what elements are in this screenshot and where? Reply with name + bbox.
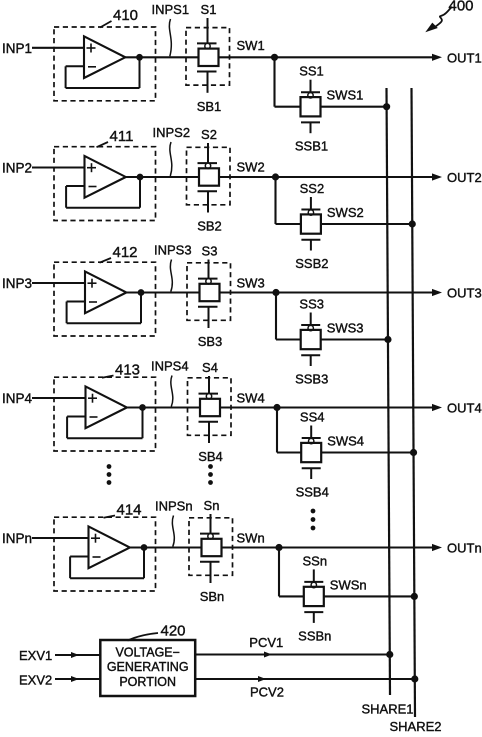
- transmission gate switch SWSn: [304, 582, 324, 623]
- svg-text:SS4: SS4: [300, 410, 325, 425]
- wire feedback loop of U4: [67, 408, 142, 439]
- svg-text:OUT2: OUT2: [447, 170, 482, 185]
- svg-text:PORTION: PORTION: [119, 675, 176, 689]
- node SW2 junction: [272, 174, 278, 180]
- voltage-generating portion block U420: [100, 640, 195, 696]
- wire feedback loop of U1: [66, 57, 140, 88]
- svg-text:SSB4: SSB4: [296, 485, 329, 500]
- leader line INPS1 to wire: [169, 19, 171, 56]
- op-amp Un: [89, 527, 130, 569]
- switch INPS1 dashed outline: [186, 28, 230, 86]
- node EXV2 (input terminal label): [19, 673, 52, 688]
- svg-text:PCV1: PCV1: [249, 635, 283, 650]
- node SWS3-SHARE1 junction: [385, 336, 391, 342]
- switch INPS3 dashed outline: [187, 263, 231, 321]
- node SWS1-SHARE1 junction: [384, 104, 390, 110]
- wire INPn to op-amp + input: [32, 537, 89, 539]
- svg-text:INPn: INPn: [2, 531, 32, 546]
- label INPS3: [154, 243, 192, 258]
- node OUT1 (output terminal label): [447, 50, 482, 65]
- svg-text:SWS4: SWS4: [327, 434, 364, 449]
- label 412 (buffer block reference): [100, 244, 138, 263]
- wire SWn node to OUTn: [222, 546, 434, 548]
- label SSBn (share switch control): [298, 628, 331, 643]
- node OUT2 (output terminal label): [447, 170, 482, 185]
- label INPS2: [153, 125, 191, 140]
- svg-text:INP3: INP3: [2, 276, 32, 291]
- wire branch SW4 down to SWS4: [277, 408, 301, 453]
- node op-amp U1 output junction: [137, 54, 143, 60]
- buffer block 413 dashed outline: [54, 377, 156, 451]
- svg-text:Sn: Sn: [204, 498, 220, 513]
- wire OUTn arrowhead: [432, 544, 442, 551]
- label SSB1 (share switch control): [295, 139, 328, 154]
- transmission gate switch S4: [199, 394, 221, 443]
- node INP1 (input terminal label): [2, 41, 32, 56]
- svg-text:SHARE2: SHARE2: [390, 719, 442, 734]
- svg-text:OUTn: OUTn: [447, 541, 482, 556]
- label PCV1 (net name): [249, 635, 283, 650]
- label Sn (switch control): [204, 498, 220, 513]
- wire branch SW2 down to SWS2: [276, 177, 301, 224]
- svg-text:S1: S1: [201, 2, 217, 17]
- op-amp U4: [86, 387, 127, 429]
- label 400 (figure reference): [449, 0, 474, 15]
- wire SS1 gate: [310, 80, 312, 93]
- label INPS4: [151, 359, 189, 374]
- wire S3 gate: [208, 260, 210, 279]
- label INPSn: [155, 499, 193, 514]
- svg-text:SW3: SW3: [237, 276, 265, 291]
- node INP3 (input terminal label): [2, 276, 32, 291]
- svg-text:411: 411: [110, 128, 134, 145]
- label S2 (switch control): [201, 127, 217, 142]
- squiggle leader arrow to 400: [425, 7, 452, 33]
- node op-amp U4 output junction: [140, 405, 146, 411]
- wire SS2 gate: [310, 197, 312, 210]
- svg-text:SW4: SW4: [237, 391, 265, 406]
- node SWSn-SHARE2 junction: [411, 593, 417, 599]
- label SS1 (share switch control): [299, 64, 324, 79]
- svg-text:INP2: INP2: [2, 161, 32, 176]
- wire U3 output to switch S3: [126, 291, 199, 293]
- wire OUT3 arrowhead: [432, 289, 442, 296]
- label INPS1: [152, 2, 190, 17]
- svg-text:SSn: SSn: [303, 553, 328, 568]
- transmission gate switch Sn: [200, 534, 222, 583]
- wire U2 output to switch S2: [126, 176, 199, 178]
- transmission gate switch SWS3: [301, 325, 321, 366]
- wire SW4 node to OUT4: [220, 406, 433, 408]
- label SB4 (switch control): [198, 449, 223, 464]
- node OUT3 (output terminal label): [447, 286, 482, 301]
- wire S1 gate: [207, 18, 209, 43]
- wire PCV1 to SHARE1: [195, 652, 390, 658]
- label 420 (block reference): [128, 623, 186, 641]
- wire SW3 node to OUT3: [220, 291, 434, 293]
- switch INPSn dashed outline: [189, 518, 233, 576]
- svg-text:SWn: SWn: [237, 531, 265, 546]
- node SW1 junction: [271, 54, 277, 60]
- node SWS2-SHARE2 junction: [409, 221, 415, 227]
- switch INPS4 dashed outline: [188, 378, 232, 436]
- op-amp U3: [85, 272, 126, 314]
- svg-text:INPS1: INPS1: [152, 2, 190, 17]
- leader line INPS4 to wire: [171, 376, 173, 407]
- svg-text:OUT1: OUT1: [447, 50, 482, 65]
- svg-text:SB1: SB1: [197, 99, 222, 114]
- label SWn (node name): [237, 531, 265, 546]
- wire OUT1 arrowhead: [432, 54, 442, 61]
- label 414 (buffer block reference): [104, 502, 142, 519]
- svg-text:SWS3: SWS3: [327, 321, 364, 336]
- svg-text:SSB3: SSB3: [295, 372, 328, 387]
- label SHARE2 (net name): [390, 719, 442, 734]
- wire SWS4 to SHARE2: [321, 451, 413, 453]
- svg-text:SSB2: SSB2: [295, 256, 328, 271]
- wire INP2 to op-amp + input: [32, 166, 85, 168]
- ellipsis dots (share switch column): [311, 509, 315, 530]
- wire Sn gate: [210, 514, 212, 534]
- label SS2 (share switch control): [300, 181, 325, 196]
- node SW4 junction: [274, 404, 280, 410]
- ellipsis dots (switch column): [209, 465, 213, 485]
- label SW4 (node name): [237, 391, 265, 406]
- label SSB3 (share switch control): [295, 372, 328, 387]
- buffer block 410 dashed outline: [54, 27, 156, 101]
- node SWn junction: [276, 544, 282, 550]
- svg-text:SWSn: SWSn: [330, 577, 367, 592]
- svg-text:VOLTAGE−: VOLTAGE−: [115, 646, 180, 660]
- svg-text:412: 412: [113, 244, 138, 261]
- leader line INPS2 to wire: [170, 142, 172, 176]
- svg-text:EXV2: EXV2: [19, 673, 52, 688]
- svg-text:SS2: SS2: [300, 181, 325, 196]
- transmission gate switch SWS2: [301, 210, 321, 251]
- svg-text:S4: S4: [202, 360, 218, 375]
- node op-amp U2 output junction: [137, 174, 143, 180]
- svg-text:SSBn: SSBn: [298, 628, 331, 643]
- svg-text:SB3: SB3: [198, 334, 223, 349]
- op-amp U1: [84, 36, 125, 78]
- label SS4 (share switch control): [300, 410, 325, 425]
- svg-text:414: 414: [117, 502, 142, 519]
- node SWS4-SHARE2 junction: [410, 449, 416, 455]
- wire INP1 to op-amp + input: [32, 47, 84, 49]
- buffer block 412 dashed outline: [54, 262, 156, 336]
- svg-text:SWS2: SWS2: [327, 205, 364, 220]
- svg-text:INPS3: INPS3: [154, 243, 192, 258]
- svg-text:SB4: SB4: [198, 449, 223, 464]
- svg-text:SHARE1: SHARE1: [362, 702, 414, 717]
- wire S2 gate: [207, 143, 209, 163]
- node op-amp Un output junction: [141, 545, 147, 551]
- wire SW2 node to OUT2: [219, 176, 433, 178]
- wire SS4 gate: [310, 426, 312, 439]
- label S1 (switch control): [201, 2, 217, 17]
- label SSB2 (share switch control): [295, 256, 328, 271]
- svg-text:SS3: SS3: [299, 297, 324, 312]
- wire SS3 gate: [310, 313, 312, 326]
- svg-text:SWS1: SWS1: [327, 88, 364, 103]
- node OUT4 (output terminal label): [447, 401, 482, 416]
- label S4 (switch control): [202, 360, 218, 375]
- wire SW1 node to OUT1: [219, 56, 434, 58]
- buffer block 414 dashed outline: [54, 517, 156, 591]
- wire Un output to switch Sn: [130, 546, 202, 548]
- wire INP4 to op-amp + input: [32, 397, 86, 399]
- wire OUT4 arrowhead: [432, 404, 442, 411]
- wire SHARE1 vertical bus: [387, 88, 391, 695]
- label SBn (switch control): [200, 589, 225, 604]
- label SWS3 (switch name): [327, 321, 364, 336]
- label S3 (switch control): [202, 244, 218, 259]
- label SWSn (switch name): [330, 577, 367, 592]
- label PCV2 (net name): [250, 685, 284, 700]
- transmission gate switch S1: [197, 43, 219, 92]
- label 410 (buffer block reference): [100, 7, 138, 28]
- node INPn (input terminal label): [2, 531, 32, 546]
- svg-text:420: 420: [161, 623, 186, 640]
- wire OUT2 arrowhead: [432, 173, 442, 180]
- ellipsis dots (input column): [107, 465, 111, 485]
- transmission gate switch S3: [198, 279, 220, 328]
- node INP2 (input terminal label): [2, 161, 32, 176]
- transmission gate switch SWS1: [301, 92, 321, 133]
- wire branch SW1 down to SWS1: [275, 57, 301, 106]
- svg-text:410: 410: [113, 7, 138, 24]
- label SW3 (node name): [237, 276, 265, 291]
- label SWS1 (switch name): [327, 88, 364, 103]
- node PCV2-SHARE2 junction: [412, 676, 418, 682]
- svg-text:413: 413: [115, 362, 140, 379]
- wire U4 output to switch S4: [127, 406, 200, 408]
- svg-text:SBn: SBn: [200, 589, 225, 604]
- svg-text:SSB1: SSB1: [295, 139, 328, 154]
- label SB1 (switch control): [197, 99, 222, 114]
- wire S4 gate: [208, 376, 210, 394]
- leader line INPS3 to wire: [170, 260, 172, 292]
- node PCV1-SHARE1 junction: [387, 651, 393, 657]
- op-amp U2: [85, 156, 126, 198]
- wire feedback loop of U2: [66, 177, 140, 208]
- svg-text:EXV1: EXV1: [19, 648, 52, 663]
- svg-text:SS1: SS1: [299, 64, 324, 79]
- svg-text:SB2: SB2: [197, 219, 222, 234]
- label SW1 (node name): [237, 38, 265, 53]
- wire SWS3 to SHARE1: [321, 338, 388, 340]
- svg-text:INPS2: INPS2: [153, 125, 191, 140]
- label SW2 (node name): [237, 160, 265, 175]
- node SW3 junction: [273, 289, 279, 295]
- wire SSn gate: [313, 569, 315, 582]
- transmission gate switch S2: [198, 163, 220, 212]
- label SB2 (switch control): [197, 219, 222, 234]
- svg-text:OUT3: OUT3: [447, 286, 482, 301]
- svg-text:OUT4: OUT4: [447, 401, 482, 416]
- wire SWSn to SHARE2: [324, 595, 415, 597]
- svg-text:SW2: SW2: [237, 160, 265, 175]
- wire SWS1 to SHARE1: [321, 106, 387, 108]
- node EXV1 (input terminal label): [19, 648, 52, 663]
- wire EXV2 into block: [55, 676, 100, 682]
- svg-text:SW1: SW1: [237, 38, 265, 53]
- svg-text:GENERATING: GENERATING: [107, 660, 189, 674]
- switch INPS2 dashed outline: [187, 147, 231, 205]
- node OUTn (output terminal label): [447, 541, 482, 556]
- svg-text:INP1: INP1: [2, 41, 32, 56]
- svg-text:PCV2: PCV2: [250, 685, 284, 700]
- label 413 (buffer block reference): [102, 362, 140, 379]
- wire EXV1 into block: [55, 652, 100, 658]
- label SHARE1 (net name): [362, 702, 414, 717]
- wire feedback loop of U3: [67, 293, 141, 324]
- node INP4 (input terminal label): [2, 391, 33, 406]
- label SS3 (share switch control): [299, 297, 324, 312]
- svg-text:S3: S3: [202, 244, 218, 259]
- svg-text:INP4: INP4: [2, 391, 33, 406]
- label SSn (share switch control): [303, 553, 328, 568]
- wire SWS2 to SHARE2: [321, 223, 412, 225]
- wire PCV2 to SHARE2: [195, 676, 415, 682]
- wire SHARE2 vertical bus: [412, 88, 416, 717]
- label SWS4 (switch name): [327, 434, 364, 449]
- svg-text:S2: S2: [201, 127, 217, 142]
- transmission gate switch SWS4: [301, 438, 321, 479]
- leader line INPSn to wire: [172, 516, 174, 547]
- label SWS2 (switch name): [327, 205, 364, 220]
- svg-text:INPS4: INPS4: [151, 359, 189, 374]
- svg-text:INPSn: INPSn: [155, 499, 193, 514]
- wire feedback loop of Un: [70, 548, 144, 579]
- label SSB4 (share switch control): [296, 485, 329, 500]
- label SB3 (switch control): [198, 334, 223, 349]
- wire branch SW3 down to SWS3: [276, 293, 301, 340]
- wire INP3 to op-amp + input: [32, 282, 85, 284]
- node op-amp U3 output junction: [138, 290, 144, 296]
- label 411 (buffer block reference): [97, 128, 134, 147]
- wire branch SWn down to SWSn: [279, 548, 304, 597]
- buffer block 411 dashed outline: [54, 147, 156, 221]
- wire U1 output to switch S1: [125, 56, 198, 58]
